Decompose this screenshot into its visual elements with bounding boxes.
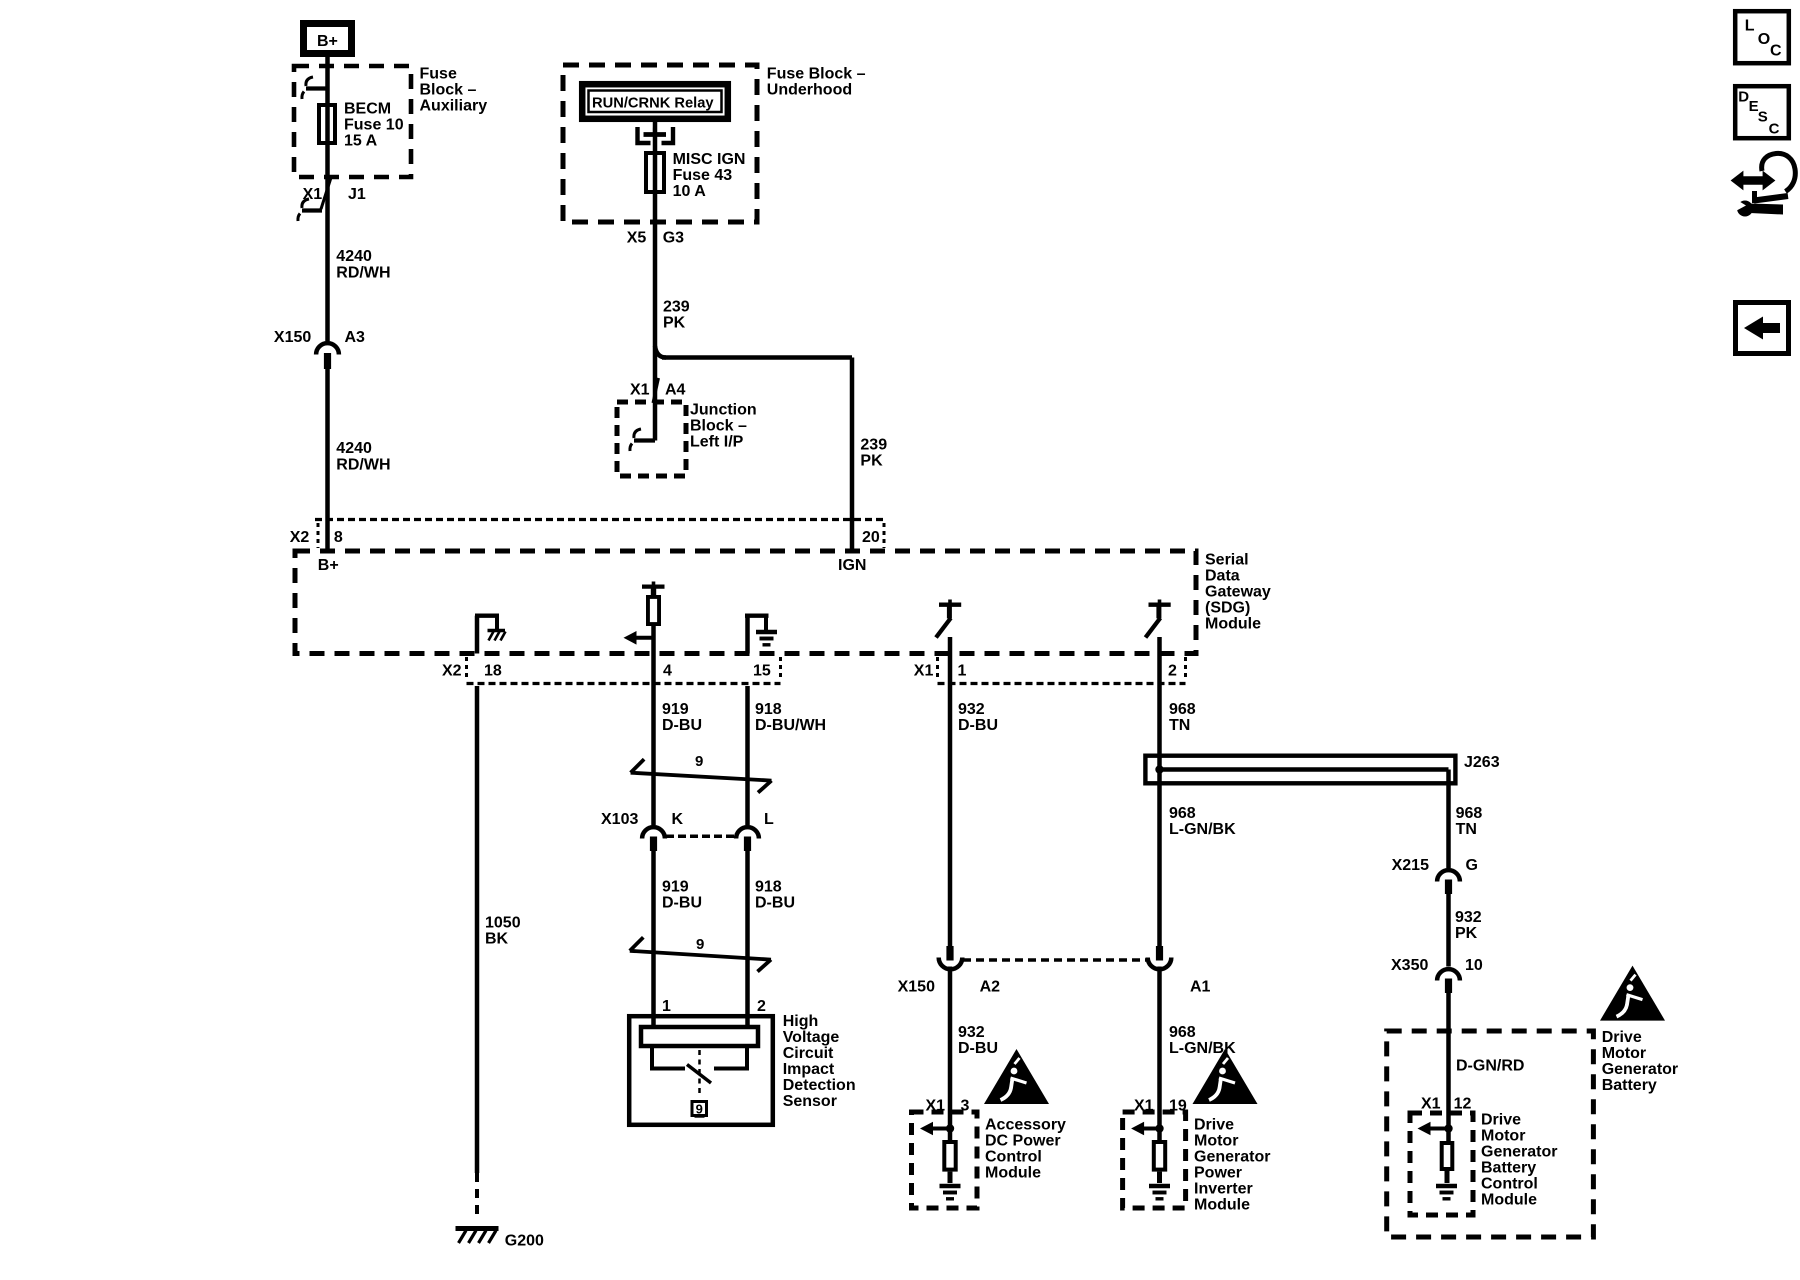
- svg-text:X150: X150: [898, 979, 935, 996]
- svg-text:4240: 4240: [336, 440, 372, 457]
- svg-text:MISC IGN: MISC IGN: [673, 151, 746, 168]
- svg-text:X350: X350: [1391, 957, 1428, 974]
- svg-text:X1: X1: [914, 663, 934, 680]
- svg-text:Detection: Detection: [783, 1077, 856, 1094]
- svg-text:Generator: Generator: [1602, 1061, 1678, 1078]
- svg-text:10: 10: [1465, 957, 1483, 974]
- svg-text:O: O: [1758, 31, 1770, 48]
- svg-text:1: 1: [958, 663, 967, 680]
- svg-text:S: S: [1758, 109, 1768, 126]
- svg-text:A3: A3: [345, 329, 366, 346]
- svg-text:2: 2: [1168, 663, 1177, 680]
- svg-text:D-BU/WH: D-BU/WH: [755, 717, 826, 734]
- svg-text:D-GN/RD: D-GN/RD: [1456, 1057, 1524, 1074]
- svg-text:X1: X1: [926, 1097, 946, 1114]
- svg-text:Module: Module: [1481, 1191, 1537, 1208]
- svg-text:X103: X103: [601, 811, 638, 828]
- svg-text:High: High: [783, 1013, 819, 1030]
- svg-text:Junction: Junction: [690, 402, 757, 419]
- svg-text:Motor: Motor: [1602, 1045, 1646, 1062]
- svg-text:X215: X215: [1392, 857, 1429, 874]
- svg-text:RUN/CRNK Relay: RUN/CRNK Relay: [592, 96, 714, 112]
- svg-text:D-BU: D-BU: [755, 895, 795, 912]
- svg-text:RD/WH: RD/WH: [336, 264, 390, 281]
- svg-text:Motor: Motor: [1481, 1127, 1525, 1144]
- svg-text:X150: X150: [274, 329, 311, 346]
- svg-text:L: L: [764, 811, 774, 828]
- svg-text:Gateway: Gateway: [1205, 583, 1271, 600]
- svg-text:G3: G3: [663, 229, 684, 246]
- svg-text:20: 20: [862, 529, 880, 546]
- svg-text:X1: X1: [1134, 1097, 1154, 1114]
- svg-text:8: 8: [334, 529, 343, 546]
- svg-text:Sensor: Sensor: [783, 1093, 837, 1110]
- svg-text:Circuit: Circuit: [783, 1045, 834, 1062]
- svg-text:918: 918: [755, 879, 782, 896]
- svg-text:L-GN/BK: L-GN/BK: [1169, 821, 1236, 838]
- svg-text:J263: J263: [1464, 754, 1500, 771]
- svg-text:12: 12: [1454, 1095, 1472, 1112]
- svg-text:RD/WH: RD/WH: [336, 456, 390, 473]
- svg-text:A1: A1: [1190, 979, 1211, 996]
- svg-text:932: 932: [958, 1024, 985, 1041]
- svg-text:Inverter: Inverter: [1194, 1180, 1253, 1197]
- svg-text:Control: Control: [1481, 1175, 1538, 1192]
- svg-text:A4: A4: [665, 382, 686, 399]
- svg-text:X2: X2: [290, 529, 310, 546]
- svg-text:1: 1: [662, 998, 671, 1015]
- svg-text:Underhood: Underhood: [767, 82, 852, 99]
- svg-text:3: 3: [961, 1097, 970, 1114]
- svg-text:968: 968: [1169, 701, 1196, 718]
- svg-text:TN: TN: [1456, 821, 1477, 838]
- svg-text:18: 18: [484, 663, 502, 680]
- svg-text:D-BU: D-BU: [662, 717, 702, 734]
- svg-text:918: 918: [755, 701, 782, 718]
- svg-text:D-BU: D-BU: [958, 717, 998, 734]
- svg-text:L: L: [1745, 18, 1755, 35]
- svg-text:239: 239: [663, 298, 690, 315]
- svg-text:919: 919: [662, 879, 689, 896]
- svg-text:Data: Data: [1205, 567, 1240, 584]
- svg-text:A2: A2: [980, 979, 1001, 996]
- svg-text:9: 9: [695, 753, 703, 770]
- svg-text:15: 15: [753, 663, 771, 680]
- svg-text:Battery: Battery: [1602, 1077, 1657, 1094]
- svg-text:19: 19: [1169, 1097, 1187, 1114]
- svg-text:2: 2: [757, 998, 766, 1015]
- svg-text:Serial: Serial: [1205, 551, 1249, 568]
- svg-text:4: 4: [663, 663, 672, 680]
- svg-text:Generator: Generator: [1481, 1143, 1557, 1160]
- svg-text:Voltage: Voltage: [783, 1029, 840, 1046]
- svg-text:9: 9: [696, 936, 704, 953]
- svg-text:PK: PK: [860, 453, 883, 470]
- svg-text:G: G: [1466, 857, 1478, 874]
- svg-text:BK: BK: [485, 931, 509, 948]
- svg-text:Left I/P: Left I/P: [690, 434, 744, 451]
- svg-text:Block –: Block –: [420, 82, 477, 99]
- svg-text:Auxiliary: Auxiliary: [420, 98, 488, 115]
- svg-text:Battery: Battery: [1481, 1159, 1536, 1176]
- svg-text:D: D: [1738, 89, 1749, 106]
- svg-text:968: 968: [1456, 805, 1483, 822]
- svg-text:Block –: Block –: [690, 418, 747, 435]
- svg-text:D-BU: D-BU: [958, 1040, 998, 1057]
- svg-text:B+: B+: [317, 33, 338, 50]
- svg-text:X1: X1: [630, 382, 650, 399]
- svg-text:X1: X1: [303, 186, 323, 203]
- svg-text:(SDG): (SDG): [1205, 599, 1250, 616]
- svg-text:C: C: [1770, 43, 1782, 60]
- svg-text:BECM: BECM: [344, 101, 391, 118]
- svg-text:15 A: 15 A: [344, 133, 378, 150]
- svg-text:G200: G200: [505, 1232, 544, 1249]
- svg-text:Module: Module: [1205, 615, 1261, 632]
- svg-text:X1: X1: [1421, 1095, 1441, 1112]
- svg-text:10 A: 10 A: [673, 183, 707, 200]
- svg-text:Motor: Motor: [1194, 1132, 1238, 1149]
- svg-text:968: 968: [1169, 805, 1196, 822]
- svg-text:Fuse: Fuse: [420, 66, 457, 83]
- svg-text:D-BU: D-BU: [662, 895, 702, 912]
- svg-text:PK: PK: [663, 314, 686, 331]
- svg-text:9: 9: [696, 1102, 703, 1117]
- svg-text:X2: X2: [442, 663, 462, 680]
- svg-text:919: 919: [662, 701, 689, 718]
- svg-text:DC Power: DC Power: [985, 1132, 1061, 1149]
- svg-text:B+: B+: [318, 557, 339, 574]
- svg-text:968: 968: [1169, 1024, 1196, 1041]
- svg-text:932: 932: [958, 701, 985, 718]
- svg-text:Fuse Block –: Fuse Block –: [767, 66, 866, 83]
- svg-text:Drive: Drive: [1481, 1111, 1521, 1128]
- svg-text:Drive: Drive: [1194, 1116, 1234, 1133]
- svg-text:Accessory: Accessory: [985, 1116, 1066, 1133]
- svg-text:Module: Module: [985, 1164, 1041, 1181]
- svg-text:IGN: IGN: [838, 557, 866, 574]
- svg-text:K: K: [672, 811, 684, 828]
- svg-text:Drive: Drive: [1602, 1029, 1642, 1046]
- svg-text:Generator: Generator: [1194, 1148, 1270, 1165]
- svg-text:PK: PK: [1455, 925, 1478, 942]
- svg-text:Fuse 10: Fuse 10: [344, 117, 404, 134]
- svg-text:TN: TN: [1169, 717, 1190, 734]
- svg-text:X5: X5: [627, 229, 647, 246]
- svg-text:Power: Power: [1194, 1164, 1242, 1181]
- svg-text:Impact: Impact: [783, 1061, 835, 1078]
- svg-text:C: C: [1769, 121, 1780, 138]
- svg-text:1050: 1050: [485, 915, 521, 932]
- svg-text:Fuse 43: Fuse 43: [673, 167, 733, 184]
- svg-text:Control: Control: [985, 1148, 1042, 1165]
- svg-text:J1: J1: [348, 186, 366, 203]
- svg-text:Module: Module: [1194, 1196, 1250, 1213]
- svg-text:239: 239: [860, 437, 887, 454]
- svg-text:4240: 4240: [336, 248, 372, 265]
- svg-text:932: 932: [1455, 909, 1482, 926]
